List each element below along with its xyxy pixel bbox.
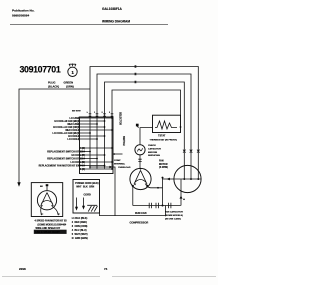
wire 2 (loop) bbox=[97, 74, 191, 178]
svg-text:(S RPM): (S RPM) bbox=[159, 167, 168, 169]
fan motor windings bbox=[41, 193, 54, 206]
svg-text:COMPRESSOR: COMPRESSOR bbox=[130, 221, 149, 225]
svg-text:LO FAN: LO FAN bbox=[69, 117, 78, 120]
svg-text:SERVICING: SERVICING bbox=[148, 155, 160, 157]
power cord box bbox=[73, 180, 100, 214]
power cord leads bbox=[77, 198, 84, 208]
selector switch box bbox=[80, 117, 114, 174]
svg-text:74: 74 bbox=[104, 267, 108, 271]
svg-text:INTERNAL: INTERNAL bbox=[114, 162, 126, 165]
splice marks on top wires bbox=[134, 65, 137, 83]
wire stub right bbox=[113, 153, 123, 155]
svg-text:(SOME MODELS): (SOME MODELS) bbox=[165, 215, 183, 217]
fan motor circle bbox=[37, 191, 56, 210]
svg-text:PLUG: PLUG bbox=[48, 81, 55, 85]
svg-text:BEFORE: BEFORE bbox=[148, 152, 158, 154]
svg-text:GAL1038F1A: GAL1038F1A bbox=[102, 7, 123, 11]
svg-text:(IN ONE CASE): (IN ONE CASE) bbox=[165, 217, 181, 220]
ground symbol bbox=[87, 205, 97, 211]
svg-text:WIRING DIAGRAM: WIRING DIAGRAM bbox=[102, 20, 130, 24]
svg-text:REPLACEMENT SWITCH KIT 5304: REPLACEMENT SWITCH KIT 5304 bbox=[47, 151, 85, 154]
svg-text:OVERLOAD: OVERLOAD bbox=[118, 166, 131, 169]
svg-text:4 BLU (BLU): 4 BLU (BLU) bbox=[72, 229, 87, 232]
svg-text:WHT BLK GRN: WHT BLK GRN bbox=[76, 187, 94, 189]
svg-text:L1 BLK (BLK): L1 BLK (BLK) bbox=[72, 217, 88, 220]
svg-text:(SOME MODELS) 5304464: (SOME MODELS) 5304464 bbox=[38, 223, 67, 226]
node tstat junction bbox=[180, 126, 182, 128]
switch left terminal ticks bbox=[78, 117, 80, 140]
svg-text:LO COOL: LO COOL bbox=[67, 139, 78, 141]
wire fan common bbox=[163, 178, 175, 180]
fan motor leads bbox=[41, 207, 59, 215]
thermostat box TSTAT bbox=[153, 115, 181, 132]
wire 4 (loop to thermostat) bbox=[112, 90, 181, 169]
svg-text:COMP: COMP bbox=[114, 160, 121, 162]
svg-text:N GRN (GRN): N GRN (GRN) bbox=[72, 237, 88, 240]
svg-text:309107701: 309107701 bbox=[20, 64, 61, 74]
svg-text:REPLACEMENT FAN MOTOR KIT 5304: REPLACEMENT FAN MOTOR KIT 5304464 bbox=[39, 165, 86, 168]
wire capacitor bus bbox=[133, 205, 181, 207]
node bus junction bbox=[162, 205, 164, 207]
svg-text:SWITCH: SWITCH bbox=[122, 136, 125, 146]
svg-text:FAN CAPACITOR: FAN CAPACITOR bbox=[165, 210, 183, 213]
svg-text:SELECTOR: SELECTOR bbox=[118, 112, 121, 125]
wire green ground lead bbox=[19, 89, 90, 183]
svg-text:MED COOL: MED COOL bbox=[65, 130, 78, 132]
svg-text:CHECK: CHECK bbox=[148, 145, 156, 147]
svg-text:TSTAT: TSTAT bbox=[158, 135, 166, 138]
svg-text:(BLACK): (BLACK) bbox=[48, 84, 59, 88]
compressor motor bbox=[130, 168, 151, 189]
fan motor (condenser) bbox=[174, 165, 201, 192]
run capacitor bbox=[149, 203, 158, 209]
wire common bus vertical bbox=[162, 178, 164, 206]
header rule bbox=[10, 23, 168, 25]
timer symbol bbox=[68, 64, 77, 77]
svg-text:POWER CORD (BLK): POWER CORD (BLK) bbox=[75, 183, 99, 185]
svg-text:HI COOL (R): HI COOL (R) bbox=[71, 155, 85, 157]
switch terminal marks top bbox=[89, 114, 114, 116]
wire tstat to overload bbox=[140, 128, 153, 145]
overload protector bbox=[135, 145, 145, 155]
svg-text:4 (X): 4 (X) bbox=[80, 147, 85, 150]
fan capacitor bbox=[169, 203, 171, 209]
disconnect marks on fan leads bbox=[183, 150, 200, 153]
svg-text:MED FAN: MED FAN bbox=[68, 123, 79, 126]
svg-text:FAN: FAN bbox=[159, 159, 164, 162]
svg-text:5 WHT (WHT): 5 WHT (WHT) bbox=[72, 233, 88, 236]
svg-text:CORD: CORD bbox=[84, 193, 92, 196]
svg-text:5995208584: 5995208584 bbox=[12, 14, 29, 18]
svg-text:4 SPEED FAN MOTOR KIT 53: 4 SPEED FAN MOTOR KIT 53 bbox=[35, 220, 68, 223]
svg-text:HI COOL: HI COOL bbox=[68, 136, 78, 138]
wire L to fan motor (outer loop) bbox=[90, 67, 198, 179]
svg-text:GREEN: GREEN bbox=[64, 81, 74, 85]
svg-text:2298: 2298 bbox=[19, 267, 26, 271]
switch contact rungs bbox=[80, 118, 113, 169]
wire switch to line bbox=[90, 167, 115, 216]
svg-text:2 RED (RED): 2 RED (RED) bbox=[72, 221, 87, 224]
svg-text:HI COOL-HI FAN (BK): HI COOL-HI FAN (BK) bbox=[54, 120, 78, 123]
wire 3 (loop) bbox=[105, 82, 185, 178]
fan motor chord and taps bbox=[174, 178, 201, 180]
fan motor box (evaporator) bbox=[31, 183, 62, 217]
svg-text:REPLACEMENT SWITCH KIT 5304: REPLACEMENT SWITCH KIT 5304 bbox=[47, 158, 85, 161]
wire fan lead down bbox=[180, 180, 182, 206]
svg-text:(GRN): (GRN) bbox=[66, 84, 74, 88]
wire compressor R lead bbox=[147, 187, 162, 188]
svg-text:HI COOL-LO FAN (OR): HI COOL-LO FAN (OR) bbox=[53, 126, 78, 129]
wire neutral long run bbox=[100, 206, 166, 216]
svg-text:1 (X): 1 (X) bbox=[80, 169, 85, 171]
svg-text:LO COOL-LO FAN (BU): LO COOL-LO FAN (BU) bbox=[53, 132, 79, 135]
svg-text:1: 1 bbox=[71, 70, 74, 75]
svg-text:THERMOSTAT (IN FRONT): THERMOSTAT (IN FRONT) bbox=[150, 139, 178, 142]
svg-text:3 ORN (ORN): 3 ORN (ORN) bbox=[72, 225, 88, 228]
svg-text:LO COOL (B): LO COOL (B) bbox=[71, 162, 86, 164]
svg-text:BK WHT: BK WHT bbox=[72, 111, 81, 113]
svg-text:LINE & SPEED CHART: LINE & SPEED CHART bbox=[35, 231, 60, 234]
wire compressor S lead bbox=[132, 187, 134, 206]
wire overload to compressor bbox=[139, 155, 141, 169]
svg-text:RUN CAP.: RUN CAP. bbox=[135, 212, 147, 215]
svg-text:CAPACITOR: CAPACITOR bbox=[148, 147, 161, 150]
svg-text:MOTOR: MOTOR bbox=[159, 164, 168, 166]
svg-text:Publication No.: Publication No. bbox=[12, 9, 35, 13]
